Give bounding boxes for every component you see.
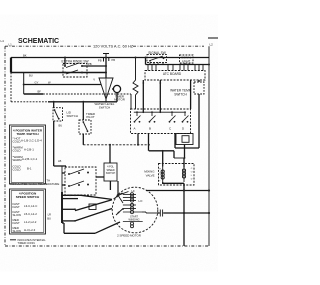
svg-text:VALVE: VALVE bbox=[146, 173, 155, 177]
svg-text:FAST: FAST bbox=[13, 221, 20, 225]
svg-text:L3-C,L2-C: L3-C,L2-C bbox=[24, 204, 37, 208]
svg-text:L5-C,L2-2: L5-C,L2-2 bbox=[24, 212, 37, 216]
svg-text:V: V bbox=[93, 78, 95, 82]
svg-text:SIGNAL SW: SIGNAL SW bbox=[148, 51, 166, 55]
svg-text:PB: PB bbox=[88, 62, 92, 66]
svg-text:2 SPEED MOTOR: 2 SPEED MOTOR bbox=[117, 234, 141, 238]
svg-text:COLD: COLD bbox=[13, 149, 21, 153]
svg-text:B: B bbox=[149, 127, 151, 131]
svg-text:PR: PR bbox=[112, 58, 116, 62]
svg-text:TH: TH bbox=[47, 179, 51, 183]
svg-text:SLOW: SLOW bbox=[13, 229, 22, 233]
svg-text:BU: BU bbox=[29, 74, 33, 78]
svg-text:L1-2,L2-2: L1-2,L2-2 bbox=[24, 220, 37, 224]
svg-text:GY: GY bbox=[35, 81, 39, 85]
svg-text:FAST: FAST bbox=[13, 205, 20, 209]
svg-text:SWITCH: SWITCH bbox=[106, 172, 116, 175]
svg-text:O: O bbox=[159, 173, 161, 175]
svg-text:120 VOLTS A.C. 60 HZ: 120 VOLTS A.C. 60 HZ bbox=[93, 43, 134, 48]
svg-text:WINDING: WINDING bbox=[128, 219, 139, 222]
svg-text:TIMER CONN.: TIMER CONN. bbox=[18, 241, 36, 245]
svg-text:BU: BU bbox=[47, 217, 51, 221]
svg-text:BK: BK bbox=[23, 53, 27, 57]
svg-text:SWITCH: SWITCH bbox=[174, 92, 187, 96]
svg-text:PILOT: PILOT bbox=[86, 115, 95, 119]
svg-text:SPEED SWITCH: SPEED SWITCH bbox=[16, 195, 40, 199]
svg-text:LB: LB bbox=[58, 159, 61, 163]
svg-text:SWITCH: SWITCH bbox=[67, 114, 78, 118]
svg-text:LR: LR bbox=[48, 213, 51, 217]
svg-text:BF: BF bbox=[38, 90, 42, 94]
svg-text:ATC BOARD: ATC BOARD bbox=[163, 72, 182, 76]
svg-text:WARM: WARM bbox=[13, 158, 23, 162]
svg-text:COLD: COLD bbox=[13, 168, 21, 172]
svg-text:A-2,B-1,C-1: A-2,B-1,C-1 bbox=[22, 157, 38, 161]
svg-text:SCHEMATIC: SCHEMATIC bbox=[18, 38, 59, 45]
svg-text:*REGULATED WASH TEMPERATURE: *REGULATED WASH TEMPERATURE bbox=[9, 182, 59, 186]
svg-text:BU: BU bbox=[59, 123, 63, 127]
svg-text:B-1: B-1 bbox=[27, 166, 32, 170]
svg-text:LIGHT: LIGHT bbox=[182, 59, 191, 63]
svg-text:COLD: COLD bbox=[13, 140, 21, 144]
svg-text:EXTRA RINSE SW: EXTRA RINSE SW bbox=[61, 60, 88, 64]
svg-text:MOTOR: MOTOR bbox=[114, 98, 125, 102]
svg-text:L4: L4 bbox=[1, 39, 5, 43]
svg-text:SWITCH: SWITCH bbox=[99, 105, 110, 109]
svg-text:A-2,B-1: A-2,B-1 bbox=[24, 147, 34, 151]
svg-text:A-1,B-2,C-1,D-4: A-1,B-2,C-1,D-4 bbox=[21, 138, 42, 142]
svg-text:L1: L1 bbox=[9, 42, 13, 46]
svg-text:A: A bbox=[134, 127, 136, 131]
svg-text:H-3,L2-3: H-3,L2-3 bbox=[24, 228, 36, 232]
svg-text:PB: PB bbox=[98, 58, 102, 62]
svg-text:HI: HI bbox=[132, 189, 135, 193]
svg-text:L2: L2 bbox=[210, 42, 214, 46]
svg-text:SLOW: SLOW bbox=[13, 213, 22, 217]
svg-text:O: O bbox=[191, 172, 193, 174]
